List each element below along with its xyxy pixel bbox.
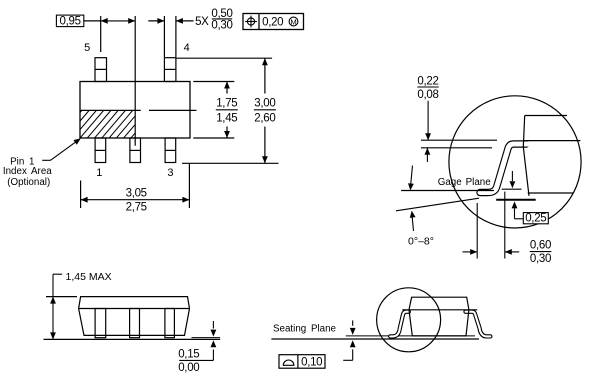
svg-text:3: 3 (167, 167, 173, 179)
svg-text:0,30: 0,30 (530, 253, 551, 265)
svg-text:Seating Plane: Seating Plane (273, 324, 337, 335)
svg-text:0,60: 0,60 (530, 240, 551, 252)
svg-text:1,75: 1,75 (216, 98, 237, 110)
svg-text:1,45: 1,45 (216, 112, 237, 124)
svg-text:0,10: 0,10 (301, 356, 322, 368)
svg-text:Gage Plane: Gage Plane (438, 177, 491, 188)
svg-text:1,45 MAX: 1,45 MAX (66, 271, 112, 283)
svg-text:0,22: 0,22 (417, 75, 438, 87)
svg-text:0,00: 0,00 (178, 362, 199, 374)
svg-text:3,05: 3,05 (126, 188, 147, 200)
svg-text:0,20: 0,20 (262, 17, 283, 29)
svg-text:1: 1 (96, 167, 102, 179)
svg-text:0,30: 0,30 (211, 19, 232, 31)
svg-text:0°–8°: 0°–8° (408, 235, 434, 247)
svg-text:(Optional): (Optional) (7, 177, 50, 188)
svg-text:0,95: 0,95 (60, 15, 81, 27)
svg-text:3,00: 3,00 (254, 98, 275, 110)
svg-text:5X: 5X (195, 16, 209, 28)
svg-text:Index Area: Index Area (3, 166, 52, 177)
svg-text:5: 5 (84, 42, 90, 54)
svg-text:2,60: 2,60 (254, 112, 275, 124)
svg-text:M: M (290, 18, 296, 27)
svg-text:4: 4 (184, 42, 190, 54)
svg-text:0,15: 0,15 (178, 348, 199, 360)
svg-text:0,25: 0,25 (525, 213, 546, 225)
svg-text:0,08: 0,08 (417, 89, 438, 101)
svg-text:2,75: 2,75 (126, 202, 147, 214)
